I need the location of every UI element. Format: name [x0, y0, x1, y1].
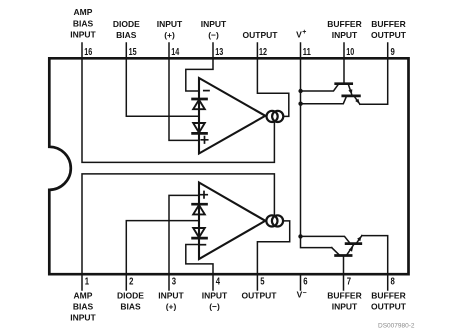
svg-text:7: 7 — [347, 277, 352, 288]
wire pin7 buffer input to Q4 base — [343, 257, 345, 275]
svg-text:BIAS: BIAS — [73, 302, 94, 312]
plus label A1 — [201, 137, 207, 143]
svg-text:11: 11 — [303, 47, 311, 58]
pin 8 stub — [387, 274, 389, 290]
svg-text:BIAS: BIAS — [73, 18, 94, 28]
svg-text:6: 6 — [303, 277, 308, 288]
minus label A2 — [200, 244, 205, 246]
svg-text:OUTPUT: OUTPUT — [371, 30, 407, 40]
svg-text:5: 5 — [260, 277, 265, 288]
svg-text:INPUT: INPUT — [157, 19, 183, 29]
svg-text:INPUT: INPUT — [70, 30, 96, 40]
wire Q3 emitter to pin8 buffer output — [362, 236, 388, 274]
current source CS1 — [267, 111, 278, 122]
pin 15 stub — [125, 43, 127, 58]
diode D1 — [193, 99, 207, 109]
pin 7 stub — [343, 274, 345, 290]
wire pin3 input+ — [169, 195, 199, 274]
pin 13 stub — [212, 43, 214, 58]
diode D4 — [193, 228, 207, 238]
svg-text:DIODE: DIODE — [113, 19, 140, 29]
svg-text:AMP: AMP — [74, 291, 93, 301]
svg-text:BIAS: BIAS — [116, 30, 137, 40]
wire pin13 input- stepped — [186, 58, 213, 91]
pin 9 stub — [387, 43, 389, 58]
svg-text:13: 13 — [215, 47, 223, 58]
node dot V+ rail to Q3 collector — [298, 234, 302, 238]
svg-text:INPUT: INPUT — [332, 30, 358, 40]
diode D3 — [193, 204, 207, 214]
svg-text:10: 10 — [346, 47, 354, 58]
pin 3 stub — [168, 274, 170, 290]
plus label A2 — [201, 192, 207, 198]
svg-text:BUFFER: BUFFER — [371, 19, 405, 29]
node dot V+ to Q1 collector — [298, 89, 302, 93]
svg-text:OUTPUT: OUTPUT — [242, 291, 278, 301]
transistor Q3 — [301, 236, 362, 244]
wire pin1 amp bias to current source top — [82, 174, 274, 274]
svg-text:3: 3 — [172, 277, 177, 288]
svg-text:INPUT: INPUT — [202, 291, 228, 301]
pin 5 stub — [256, 274, 258, 290]
IC body outline with notch — [49, 58, 408, 274]
svg-text:V: V — [296, 30, 302, 40]
svg-text:−: − — [302, 290, 306, 297]
current source CS2 — [266, 215, 277, 226]
svg-text:4: 4 — [216, 277, 221, 288]
diode D2 — [193, 123, 207, 133]
wire pin16 amp bias to current source bottom — [82, 58, 274, 162]
pin 14 stub — [168, 43, 170, 58]
wire pin12 output to current source — [257, 58, 288, 116]
pin 11 stub — [300, 43, 302, 58]
svg-text:BUFFER: BUFFER — [327, 19, 361, 29]
svg-text:BUFFER: BUFFER — [371, 291, 405, 301]
svg-text:+: + — [302, 29, 306, 36]
svg-text:16: 16 — [84, 47, 92, 58]
node dot V+ to Q2 collector — [298, 102, 302, 106]
svg-text:14: 14 — [171, 47, 179, 58]
svg-text:(+): (+) — [166, 302, 177, 312]
op-amp A1 triangle — [199, 78, 265, 154]
pin 10 stub — [343, 43, 345, 58]
transistor Q4 — [332, 245, 354, 255]
svg-text:DS007980-2: DS007980-2 — [378, 322, 415, 329]
pin 4 stub — [212, 274, 214, 290]
wire pin5 output to current source — [257, 221, 289, 274]
svg-text:(−): (−) — [209, 302, 220, 312]
wire pin14 input+ — [169, 58, 199, 140]
svg-text:BUFFER: BUFFER — [327, 291, 361, 301]
minus label A1 — [204, 90, 209, 92]
svg-text:DIODE: DIODE — [117, 291, 144, 301]
pin 6 stub — [300, 274, 302, 290]
wire pin15 diode bias to diode midpoint — [126, 58, 199, 116]
wire pin2 diode bias to diode midpoint — [126, 221, 199, 274]
svg-text:(+): (+) — [164, 30, 175, 40]
pin 16 stub — [81, 43, 83, 58]
op-amp A2 triangle — [199, 183, 265, 260]
svg-text:INPUT: INPUT — [201, 19, 227, 29]
svg-text:(−): (−) — [208, 30, 219, 40]
svg-text:12: 12 — [259, 47, 267, 58]
svg-text:1: 1 — [85, 277, 90, 288]
svg-text:INPUT: INPUT — [158, 291, 184, 301]
svg-text:BIAS: BIAS — [120, 302, 141, 312]
transistor Q2 — [301, 96, 360, 104]
svg-text:OUTPUT: OUTPUT — [371, 302, 407, 312]
wire pin10 buffer input to Q1 base — [343, 58, 345, 83]
pin 12 stub — [256, 43, 258, 58]
svg-text:8: 8 — [391, 277, 396, 288]
svg-text:9: 9 — [391, 47, 396, 58]
svg-text:INPUT: INPUT — [332, 302, 358, 312]
pin 1 stub — [81, 274, 83, 290]
svg-text:OUTPUT: OUTPUT — [243, 30, 279, 40]
svg-text:2: 2 — [129, 277, 134, 288]
wire Q2 emitter to pin9 buffer output — [360, 58, 388, 104]
svg-text:INPUT: INPUT — [70, 312, 96, 322]
transistor Q1 — [301, 84, 353, 95]
wire pin4 input- stepped — [186, 245, 213, 275]
V+ rail pin11 down to lower buffer collector — [301, 58, 332, 248]
svg-text:15: 15 — [129, 47, 137, 58]
pin 2 stub — [125, 274, 127, 290]
svg-text:AMP: AMP — [74, 7, 93, 17]
